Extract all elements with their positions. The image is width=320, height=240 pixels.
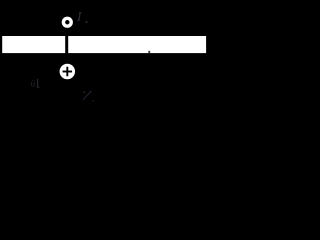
source: circled plus, current into page	[60, 64, 76, 80]
tick mark on slab bottom edge	[148, 51, 150, 53]
wire (vertical conductor crossing the slab)	[65, 36, 68, 54]
label lambda/4 (faint diagonal fraction mark)	[83, 91, 92, 100]
conductor plane (white slab)	[2, 36, 206, 53]
node: wire cross-section, current out of page (ring)	[63, 18, 71, 26]
svg-text:ü: ü	[31, 80, 36, 90]
